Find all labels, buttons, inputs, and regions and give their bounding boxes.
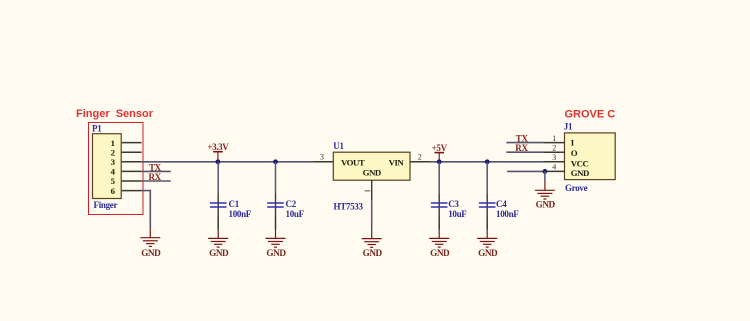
junction node at C1 tap	[216, 159, 221, 164]
svg-text:GND: GND	[363, 248, 383, 258]
wire P1 pin6 to ground	[142, 191, 151, 228]
wire +3.3V rail from P1 pin3 to U1 pin3	[142, 161, 314, 163]
ground symbol below C1	[208, 217, 228, 247]
svg-text:100nF: 100nF	[229, 209, 252, 219]
wire TX stub (left)	[142, 170, 171, 172]
svg-text:VCC: VCC	[571, 159, 589, 169]
svg-text:C1: C1	[229, 199, 240, 209]
svg-text:Finger Sensor: Finger Sensor	[76, 108, 154, 120]
wire RX stub (left)	[142, 180, 171, 182]
J1 pin 4	[545, 163, 565, 172]
connector J1 body	[565, 133, 616, 180]
svg-text:GND: GND	[363, 168, 381, 178]
P1 pin 6	[111, 186, 142, 196]
svg-text:3: 3	[552, 153, 556, 162]
P1 pin 4	[111, 167, 142, 177]
svg-text:Grove: Grove	[565, 183, 588, 193]
svg-text:HT7533: HT7533	[334, 202, 364, 212]
svg-text:GND: GND	[536, 200, 556, 210]
svg-text:O: O	[571, 148, 578, 158]
svg-text:GND: GND	[209, 248, 229, 258]
power port +5V	[432, 143, 448, 162]
wire J1 pin4 to ground	[507, 170, 544, 172]
svg-text:+3.3V: +3.3V	[207, 142, 229, 152]
U1 pin 3 (VOUT)	[313, 152, 333, 161]
P1 pin 2	[111, 147, 142, 157]
wire +5V rail from U1 pin2 to J1 pin3	[430, 161, 545, 163]
wire TX to J1 pin1	[506, 142, 544, 144]
svg-text:J1: J1	[564, 122, 573, 132]
capacitor C2	[267, 162, 284, 217]
svg-text:2: 2	[552, 144, 556, 153]
svg-text:GND: GND	[571, 168, 589, 178]
svg-text:10uF: 10uF	[286, 209, 305, 219]
ground symbol below C3	[429, 217, 449, 247]
svg-text:C4: C4	[496, 199, 507, 209]
ground symbol below J1 pin4	[535, 171, 555, 199]
J1 pin 1	[545, 134, 565, 143]
capacitor C3	[431, 162, 448, 217]
J1 pin 3	[545, 153, 565, 162]
J1 pin 2	[545, 144, 565, 153]
ground symbol below P1	[140, 228, 160, 246]
power port +3.3V	[207, 142, 229, 162]
wire RX to J1 pin2	[506, 151, 544, 153]
svg-text:1: 1	[111, 138, 115, 148]
capacitor C1	[210, 162, 227, 217]
svg-text:10uF: 10uF	[448, 209, 467, 219]
P1 pin 1	[111, 138, 142, 148]
regulator U1 body	[333, 152, 410, 180]
connector P1 body	[93, 134, 122, 199]
P1 pin 3	[111, 157, 142, 167]
svg-text:VOUT: VOUT	[341, 157, 365, 167]
svg-text:C2: C2	[286, 199, 297, 209]
P1 pin 5	[111, 176, 142, 186]
svg-text:3: 3	[320, 152, 324, 161]
svg-text:C3: C3	[448, 199, 459, 209]
svg-text:+5V: +5V	[432, 143, 448, 153]
svg-text:GND: GND	[478, 248, 498, 258]
svg-text:GND: GND	[141, 248, 161, 258]
capacitor C4	[479, 162, 496, 217]
svg-text:VIN: VIN	[389, 157, 405, 167]
junction node at C4 tap	[485, 159, 490, 164]
svg-text:2: 2	[418, 152, 422, 161]
boundary rectangle around P1	[89, 123, 144, 215]
U1 pin 1 (GND) number mark	[365, 190, 371, 192]
ground symbol below U1	[362, 230, 382, 247]
svg-text:GND: GND	[430, 248, 450, 258]
svg-text:4: 4	[552, 163, 556, 172]
U1 GND pin wire down	[371, 180, 373, 230]
svg-text:GROVE C: GROVE C	[565, 109, 616, 121]
U1 pin 2 (VIN)	[410, 152, 430, 161]
svg-text:1: 1	[552, 134, 556, 143]
svg-text:U1: U1	[333, 141, 344, 151]
svg-text:GND: GND	[266, 248, 286, 258]
junction node at J1 pin4	[543, 169, 548, 174]
junction node at C2 tap	[273, 159, 278, 164]
junction node at C3 tap	[437, 159, 442, 164]
svg-text:P1: P1	[92, 124, 102, 134]
svg-text:100nF: 100nF	[496, 209, 519, 219]
ground symbol below C2	[266, 217, 286, 247]
ground symbol below C4	[477, 217, 497, 247]
svg-text:Finger: Finger	[94, 200, 118, 210]
